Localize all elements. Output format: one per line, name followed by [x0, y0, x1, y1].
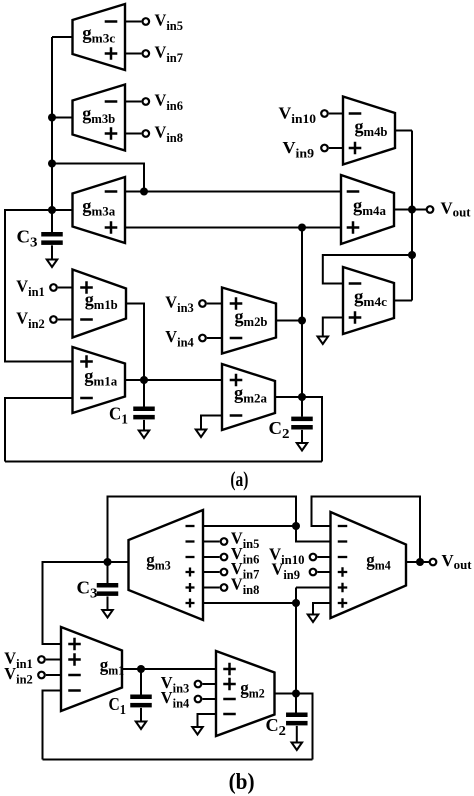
svg-text:C1: C1	[109, 404, 128, 428]
junction node V2 at gm3 pin6 part b	[292, 599, 300, 607]
input terminal Vin2	[16, 309, 72, 332]
op-amp gm3b	[73, 85, 126, 151]
svg-text:C1: C1	[109, 694, 127, 718]
input terminal Vin6	[125, 91, 183, 114]
junction node V2 at gm2 output part b	[292, 690, 300, 698]
junction node V2 at gm2b output	[298, 317, 306, 325]
output terminal Vout part a	[427, 199, 471, 220]
wire node A vertical bus	[51, 37, 53, 233]
input terminal Vin3	[165, 293, 222, 316]
junction node V2 at plus row	[298, 224, 306, 232]
ground at gm4 + input part b	[308, 615, 319, 623]
junction gm4c feedback	[408, 251, 416, 259]
junction node Vout	[408, 206, 416, 214]
ground at gm2a - input	[196, 430, 207, 438]
op-amp gm1	[61, 627, 124, 711]
input terminal bVin6	[203, 544, 260, 567]
op-amp gm3c	[73, 4, 126, 70]
wire gm4 pin6 to ground	[313, 603, 331, 615]
wire gm2a output to bottom rail	[275, 397, 322, 462]
svg-text:Vin6: Vin6	[155, 91, 184, 114]
ground below C3	[47, 245, 58, 267]
wire node A branch to minus row	[52, 164, 144, 192]
input terminal Vin8	[125, 123, 183, 146]
wire gm1a output row to gm2a + input	[125, 379, 222, 381]
wire node A top rail part b	[108, 497, 331, 563]
input terminal Vin9	[283, 138, 344, 161]
op-amp gm4c	[343, 267, 394, 334]
junction node A at minus-row branch	[48, 160, 56, 168]
wire gm1a - input to bottom rail	[5, 398, 73, 462]
junction node A at gm3 pin1 part b	[292, 522, 300, 530]
input terminal Vin7	[125, 43, 183, 66]
ground below C2	[297, 430, 308, 451]
wire node V2 down to C2 part b	[295, 694, 297, 713]
op-amp gm2b	[222, 288, 276, 354]
wire node C1 down part b	[140, 669, 142, 695]
wire gm3 pin1 to node A	[203, 525, 296, 527]
input terminal bVin8	[203, 575, 260, 598]
op-amp gm3a	[73, 177, 126, 243]
svg-text:Vin8: Vin8	[155, 123, 184, 146]
svg-text:Vout: Vout	[441, 199, 472, 220]
wire gm2b output to node V2	[276, 320, 302, 322]
junction node A at gm3b output	[48, 114, 56, 122]
wire gm3b output	[52, 117, 73, 119]
input terminal Vin4	[165, 327, 222, 350]
svg-text:Vin7: Vin7	[155, 43, 184, 66]
junction node C1	[140, 376, 148, 384]
wire gm4c + input to ground	[323, 318, 343, 337]
input terminal Vin10b	[269, 545, 331, 568]
wire gm2 output to bottom rail part b	[275, 694, 313, 760]
ground below C3 part b	[102, 596, 113, 617]
op-amp gm1a	[73, 347, 126, 413]
svg-text:Vin4: Vin4	[165, 327, 194, 350]
ground at gm2 - input part b	[192, 727, 203, 735]
input terminal Vin1b	[4, 649, 61, 672]
wire minus row gm3a to gm4a	[125, 191, 341, 193]
op-amp gm4	[331, 512, 407, 618]
svg-text:Vin2: Vin2	[16, 309, 45, 332]
op-amp gm4b	[343, 97, 395, 165]
wire gm1b output down to node C1	[126, 304, 144, 381]
wire gm4c output to right vertical	[394, 300, 412, 302]
input terminal Vin5	[125, 11, 183, 34]
wire bottom feedback rail part a	[5, 461, 322, 463]
wire Vout feedback top rail part b	[312, 497, 421, 563]
svg-text:Vin10: Vin10	[278, 104, 316, 127]
svg-text:C3: C3	[77, 578, 98, 602]
input terminal bVin5	[203, 529, 260, 552]
capacitor C3b	[77, 578, 119, 602]
input terminal bVin7	[203, 559, 260, 582]
junction minus-row drop	[140, 188, 148, 196]
output terminal Vout part b	[430, 551, 472, 572]
wire node C1 down to C1	[143, 380, 145, 407]
op-amp gm4a	[341, 175, 394, 244]
capacitor C1	[109, 404, 155, 428]
input terminal Vin1	[16, 277, 72, 300]
wire node A down to C3 part b	[107, 562, 109, 583]
wire gm3a output	[52, 209, 73, 211]
wire node V2 vertical part b	[295, 588, 297, 694]
svg-text:(a): (a)	[230, 467, 248, 491]
wire gm4 output to Vout part b	[406, 561, 429, 563]
op-amp gm3	[129, 510, 204, 620]
input terminal Vin4b	[161, 688, 216, 711]
junction node A at gm3a output	[48, 206, 56, 214]
svg-text:Vin9: Vin9	[283, 138, 315, 161]
wire gm1 output to gm2 + input	[122, 668, 216, 670]
svg-text:C3: C3	[17, 226, 38, 250]
op-amp gm1b	[73, 270, 127, 338]
wire node V2 vertical	[301, 228, 303, 417]
junction node V2 at gm2a output	[298, 393, 306, 401]
svg-text:(b): (b)	[229, 769, 255, 794]
capacitor C2b	[266, 713, 308, 740]
capacitor C2	[269, 417, 313, 443]
input terminal Vin2b	[4, 664, 61, 687]
wire gm4c - input feedback from Vout	[323, 255, 412, 284]
capacitor C3	[17, 226, 63, 250]
ground at gm4c + input	[318, 337, 329, 345]
svg-text:Vin1: Vin1	[16, 277, 45, 300]
wire gm1 pin4 to bottom rail part b	[43, 691, 62, 760]
ground below C1 part b	[136, 708, 147, 729]
wire gm4b output to right vertical	[395, 130, 412, 132]
wire gm4a output to Vout	[394, 209, 426, 211]
wire gm3c output	[52, 36, 73, 38]
ground below C2 part b	[292, 726, 303, 750]
wire gm2 pin4 to ground part b	[198, 714, 217, 727]
wire gm3 pin6 to node V2	[203, 602, 296, 604]
svg-text:Vin5: Vin5	[155, 11, 184, 34]
wire gm3 output to gm1 + input	[43, 562, 129, 644]
input terminal Vin3b	[161, 673, 216, 696]
wire node V2 to gm4 pin5	[296, 587, 331, 589]
svg-text:Vout: Vout	[442, 551, 473, 572]
capacitor C1b	[109, 694, 152, 718]
wire node A to gm1a + input	[5, 210, 73, 362]
input terminal Vin9b	[272, 560, 331, 583]
svg-text:Vin3: Vin3	[165, 293, 194, 316]
junction node A at gm3 output part b	[104, 558, 112, 566]
wire gm2a - input to ground	[201, 416, 222, 430]
op-amp gm2	[216, 651, 275, 736]
ground below C1	[139, 420, 150, 438]
junction node C1 part b	[137, 665, 145, 673]
wire right vertical gm4b-Vout-gm4c	[411, 131, 413, 301]
wire plus row gm3a to gm4a	[125, 227, 341, 229]
wire bottom feedback rail part b	[43, 759, 313, 761]
input terminal Vin10	[278, 104, 343, 127]
junction node Vout part b	[416, 558, 424, 566]
svg-text:C2: C2	[269, 418, 290, 442]
svg-text:C2: C2	[266, 715, 287, 739]
op-amp gm2a	[222, 364, 275, 430]
